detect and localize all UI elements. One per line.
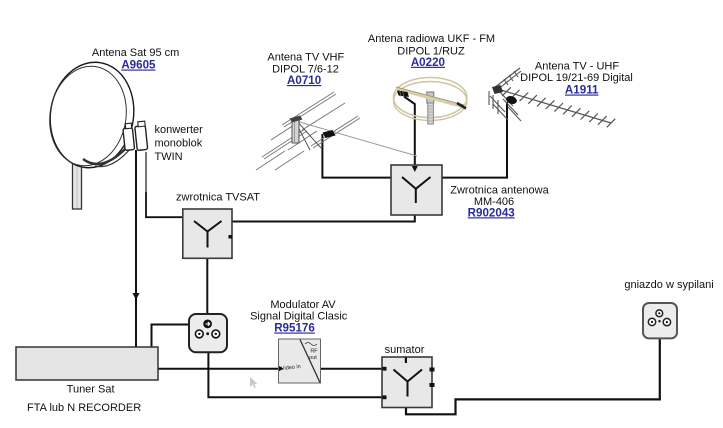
satellite dish pole [73, 150, 82, 209]
svg-text:A9605: A9605 [121, 59, 156, 72]
Tuner Sat box [16, 347, 158, 380]
svg-text:R902043: R902043 [468, 206, 516, 219]
wire: FM antenna down to MM-406 top port [404, 97, 415, 166]
splitter (rozgaleznik) box [189, 314, 227, 352]
LNB konwerter monoblok TWIN [123, 121, 148, 150]
UHF antenna feed [505, 95, 518, 105]
zwrotnica TVSAT box [183, 209, 232, 258]
svg-text:sumator: sumator [385, 344, 425, 356]
label: Antena Sat 95 cm [92, 47, 179, 59]
svg-text:Modulator AV: Modulator AV [270, 299, 336, 311]
svg-text:Antena TV VHF: Antena TV VHF [267, 52, 344, 64]
link: A9605 [121, 59, 156, 72]
label: Tuner Sat [67, 383, 115, 395]
wire: zwrotnica TVSAT right port to MM-406 bottom port [232, 214, 415, 222]
link: A0710 [287, 74, 321, 87]
svg-text:FTA lub N RECORDER: FTA lub N RECORDER [27, 402, 141, 414]
svg-text:zwrotnica TVSAT: zwrotnica TVSAT [176, 192, 260, 204]
link: R95176 [274, 322, 315, 335]
svg-text:DIPOL 19/21-69 Digital: DIPOL 19/21-69 Digital [520, 72, 633, 84]
svg-text:Antena radiowa UKF - FM: Antena radiowa UKF - FM [368, 33, 495, 45]
link: A1911 [565, 84, 599, 97]
svg-text:konwerter: konwerter [155, 124, 204, 136]
wire: modulator RF out to sumator upper left port [321, 368, 383, 370]
svg-text:Antena Sat 95 cm: Antena Sat 95 cm [92, 47, 179, 59]
sumator box [382, 357, 435, 408]
link: R902043 [468, 206, 516, 219]
label: Antena TV VHF / DIPOL 7/6-12 [267, 52, 344, 76]
label: konwerter monoblok TWIN [155, 124, 204, 163]
FM antenna DIPOL 1/RUZ [394, 78, 467, 125]
label: Video in (modulator) [281, 364, 301, 372]
svg-text:TWIN: TWIN [155, 151, 183, 163]
svg-text:R95176: R95176 [274, 322, 315, 335]
satellite dish Antena Sat 95 cm [43, 56, 142, 174]
svg-text:A0710: A0710 [287, 74, 321, 87]
label: Antena radiowa UKF - FM / DIPOL 1/RUZ [368, 33, 495, 57]
svg-text:A1911: A1911 [565, 84, 599, 97]
svg-text:monoblok: monoblok [155, 138, 203, 150]
VHF antenna DIPOL 7/6-12 [256, 92, 417, 170]
wire: LNB cable 2 to zwrotnica TVSAT left port [146, 152, 183, 217]
VHF antenna mast [290, 116, 303, 144]
gniazdo (wall outlet) box [643, 303, 677, 338]
VHF antenna feed box [323, 130, 336, 138]
Zwrotnica antenowa MM-406 box [391, 165, 442, 215]
wire: sumator bottom jog right to bedroom outlet drop [406, 338, 660, 414]
label: FTA lub N RECORDER [27, 402, 141, 414]
mouse cursor artifact [250, 377, 257, 388]
svg-text:gniazdo w sypilani: gniazdo w sypilani [624, 279, 713, 291]
wire: splitter left port to tuner top [152, 325, 206, 348]
wire: VHF antenna down then right to MM-406 left port [322, 134, 391, 178]
wire: tuner right port to modulator Video in [158, 368, 279, 370]
svg-text:Tuner Sat: Tuner Sat [67, 383, 115, 395]
label: RF out (modulator) [309, 349, 318, 362]
label: zwrotnica TVSAT [176, 192, 260, 204]
label: Antena TV - UHF / DIPOL 19/21-69 Digital [520, 60, 633, 84]
label: gniazdo w sypilani [624, 279, 713, 291]
wire: zwrotnica TVSAT bottom port down to splitter top [206, 258, 208, 314]
wire: UHF antenna down then left to MM-406 right port [442, 102, 507, 178]
label: sumator [385, 344, 425, 356]
label: Modulator AV / Signal Digital Clasic [250, 299, 348, 322]
UHF antenna reflector [489, 68, 521, 121]
wire: splitter bottom down and right to sumator lower left port [208, 352, 382, 397]
UHF antenna DIPOL 19/21-69 Digital [501, 87, 615, 127]
label: Zwrotnica antenowa MM-406 [450, 185, 549, 208]
svg-text:RF: RF [310, 349, 318, 355]
svg-text:A0220: A0220 [411, 56, 445, 69]
svg-text:Antena TV - UHF: Antena TV - UHF [535, 60, 619, 72]
svg-text:out: out [309, 355, 317, 361]
wire: LNB cable 1 to tuner [133, 150, 140, 347]
Modulator AV box [279, 339, 321, 383]
link: A0220 [411, 56, 445, 69]
